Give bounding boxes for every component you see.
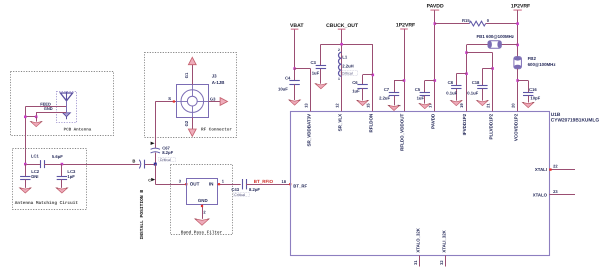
svg-text:23: 23 bbox=[553, 189, 558, 194]
svg-text:Antenna Matching Circuit: Antenna Matching Circuit bbox=[15, 200, 79, 206]
svg-text:XTALI_32K: XTALI_32K bbox=[442, 229, 447, 252]
svg-text:C3: C3 bbox=[311, 60, 317, 65]
svg-text:1uF: 1uF bbox=[352, 88, 360, 93]
svg-text:FB2: FB2 bbox=[528, 56, 537, 61]
svg-text:PCB Antenna: PCB Antenna bbox=[64, 128, 92, 133]
svg-text:Critical: Critical bbox=[342, 71, 353, 75]
svg-text:C5: C5 bbox=[415, 87, 421, 92]
svg-text:10pF: 10pF bbox=[530, 96, 540, 101]
svg-text:2.2uF: 2.2uF bbox=[379, 96, 390, 101]
svg-text:C: C bbox=[148, 178, 151, 182]
svg-text:XTALI: XTALI bbox=[535, 167, 547, 172]
svg-text:DNI: DNI bbox=[31, 174, 38, 179]
svg-text:1uF: 1uF bbox=[312, 71, 320, 76]
svg-text:PLLVDD1P2: PLLVDD1P2 bbox=[488, 113, 493, 139]
svg-text:OUT: OUT bbox=[190, 182, 200, 187]
svg-text:19: 19 bbox=[459, 103, 464, 108]
svg-text:RF Connector: RF Connector bbox=[201, 127, 232, 132]
svg-text:RFLDO_VDDOUT: RFLDO_VDDOUT bbox=[400, 114, 405, 151]
svg-text:A-1JB: A-1JB bbox=[212, 80, 225, 85]
svg-text:VCOVDD1P2: VCOVDD1P2 bbox=[513, 113, 518, 141]
svg-text:INSTALL POSITION B: INSTALL POSITION B bbox=[139, 190, 145, 240]
svg-text:C43: C43 bbox=[231, 187, 239, 192]
svg-text:C4: C4 bbox=[285, 75, 291, 80]
svg-text:CBUCK_OUT: CBUCK_OUT bbox=[326, 23, 359, 29]
svg-text:0.1uF: 0.1uF bbox=[446, 90, 457, 95]
svg-text:Critical: Critical bbox=[160, 158, 171, 162]
svg-text:1uF: 1uF bbox=[417, 96, 425, 101]
svg-text:VBAT: VBAT bbox=[290, 23, 304, 29]
svg-text:SR_VDDBAT3V: SR_VDDBAT3V bbox=[306, 114, 311, 147]
svg-text:1P2VRF: 1P2VRF bbox=[511, 3, 530, 9]
svg-text:10uF: 10uF bbox=[278, 86, 288, 91]
svg-text:C7: C7 bbox=[384, 87, 390, 92]
svg-text:8.2pF: 8.2pF bbox=[249, 187, 260, 192]
svg-text:S: S bbox=[168, 96, 171, 101]
svg-text:32: 32 bbox=[439, 260, 444, 265]
svg-text:C18: C18 bbox=[472, 80, 480, 85]
svg-text:Critical: Critical bbox=[234, 193, 245, 197]
svg-text:CYW20719B1KUMLG: CYW20719B1KUMLG bbox=[551, 118, 600, 124]
svg-text:13: 13 bbox=[303, 103, 308, 108]
svg-text:B: B bbox=[132, 159, 135, 164]
svg-text:GND: GND bbox=[198, 198, 208, 203]
svg-text:FB1 600@100MHz: FB1 600@100MHz bbox=[477, 34, 515, 39]
svg-text:21: 21 bbox=[485, 103, 490, 108]
svg-text:SR_VLX: SR_VLX bbox=[337, 114, 342, 132]
svg-text:8.2pF: 8.2pF bbox=[162, 150, 173, 155]
svg-text:BT_RFIO: BT_RFIO bbox=[254, 179, 274, 184]
svg-text:C8: C8 bbox=[448, 80, 454, 85]
svg-text:1P2VRF: 1P2VRF bbox=[396, 23, 415, 29]
svg-text:IN: IN bbox=[209, 182, 214, 187]
svg-text:G2: G2 bbox=[184, 120, 189, 126]
svg-text:18: 18 bbox=[282, 179, 287, 184]
svg-text:1pF: 1pF bbox=[67, 174, 75, 179]
svg-text:RFLDON: RFLDON bbox=[369, 114, 374, 133]
svg-text:U1B: U1B bbox=[551, 112, 561, 118]
svg-text:IFVDD1P2: IFVDD1P2 bbox=[462, 113, 467, 135]
svg-text:0.1uF: 0.1uF bbox=[467, 90, 478, 95]
svg-text:22: 22 bbox=[553, 164, 558, 169]
svg-text:C6: C6 bbox=[352, 80, 358, 85]
svg-text:LC1: LC1 bbox=[31, 154, 40, 159]
svg-text:31: 31 bbox=[413, 260, 418, 265]
svg-text:XTALO_32K: XTALO_32K bbox=[416, 227, 421, 252]
svg-text:PAVDD: PAVDD bbox=[427, 3, 444, 9]
svg-text:PAVDD: PAVDD bbox=[431, 113, 436, 129]
svg-text:R15: R15 bbox=[462, 18, 470, 23]
svg-text:20: 20 bbox=[510, 103, 515, 108]
svg-text:C16: C16 bbox=[529, 87, 537, 92]
svg-text:5.6pF: 5.6pF bbox=[52, 154, 63, 159]
svg-text:2: 2 bbox=[338, 48, 340, 52]
svg-text:600@100MHz: 600@100MHz bbox=[528, 62, 557, 67]
svg-text:15: 15 bbox=[366, 103, 371, 108]
svg-text:12: 12 bbox=[334, 103, 339, 108]
svg-text:L1: L1 bbox=[342, 54, 348, 59]
svg-text:XTALO: XTALO bbox=[533, 193, 548, 198]
svg-text:J3: J3 bbox=[212, 74, 217, 79]
svg-text:2.2uH: 2.2uH bbox=[342, 63, 353, 68]
svg-text:G3: G3 bbox=[210, 96, 216, 101]
svg-text:BT_RF: BT_RF bbox=[293, 184, 307, 189]
svg-text:G1: G1 bbox=[184, 72, 189, 78]
svg-text:1: 1 bbox=[338, 77, 340, 81]
svg-text:Band Pass Filter: Band Pass Filter bbox=[181, 230, 223, 236]
